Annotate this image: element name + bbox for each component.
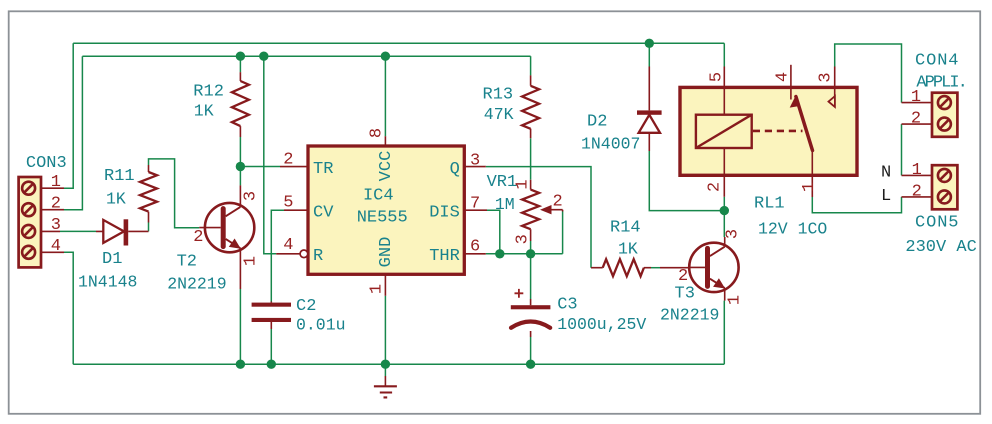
svg-text:47K: 47K xyxy=(484,105,514,124)
label CON4 xyxy=(915,52,959,71)
svg-text:R: R xyxy=(313,247,323,266)
junction node gnd C3 xyxy=(526,360,535,369)
pin number IC 5 xyxy=(283,194,293,213)
connector CON4 xyxy=(902,93,958,137)
value RL1 12V 1CO xyxy=(758,220,827,239)
relay pin 1 xyxy=(811,151,813,198)
label CON5 xyxy=(915,214,959,233)
label T3 xyxy=(675,285,695,304)
pin number CON3-3 xyxy=(51,216,61,235)
svg-text:2N2219: 2N2219 xyxy=(167,275,226,294)
svg-text:1: 1 xyxy=(911,88,921,107)
svg-text:8: 8 xyxy=(368,128,387,138)
value D2 1N4007 xyxy=(581,135,640,154)
net label N xyxy=(881,164,891,183)
svg-text:D1: D1 xyxy=(102,250,122,269)
svg-text:C2: C2 xyxy=(296,297,316,316)
wire CON3 pin1 to +12V rail xyxy=(64,43,73,188)
pin number VR1 1 xyxy=(514,179,533,189)
wire TR node to IC xyxy=(240,166,280,168)
svg-text:T3: T3 xyxy=(675,285,695,304)
svg-text:N: N xyxy=(881,164,891,183)
svg-text:2: 2 xyxy=(706,182,725,192)
wire relay pin1 to CON5 pin2 xyxy=(812,197,901,213)
svg-text:3: 3 xyxy=(242,191,261,201)
wire relay pin5 drop xyxy=(723,43,725,66)
connector CON3 xyxy=(19,177,64,267)
svg-text:NE555: NE555 xyxy=(357,209,408,228)
junction node rail B R12 xyxy=(236,52,245,61)
wire +12V rail A top xyxy=(73,42,724,44)
wire D1 cathode to R11 bottom xyxy=(148,223,150,232)
diode D2 xyxy=(637,67,662,152)
svg-text:DIS: DIS xyxy=(429,203,460,222)
wire rail B to IC VCC pin xyxy=(384,56,386,136)
svg-text:TR: TR xyxy=(313,160,333,179)
junction node DIS-THR xyxy=(495,249,504,258)
value T3 2N2219 xyxy=(660,306,719,325)
svg-text:R11: R11 xyxy=(104,167,135,186)
svg-text:4: 4 xyxy=(774,72,793,82)
value C2 0.01u xyxy=(296,316,346,335)
label D1 xyxy=(102,250,122,269)
svg-text:1N4007: 1N4007 xyxy=(581,135,640,154)
wire CON3 pin2 riser xyxy=(64,56,82,210)
svg-text:5: 5 xyxy=(283,194,293,213)
pin 1 GND stub xyxy=(384,274,386,296)
label D2 xyxy=(587,113,607,132)
svg-text:R14: R14 xyxy=(610,219,641,238)
junction node THR-VR1 xyxy=(526,249,535,258)
svg-text:2: 2 xyxy=(911,110,921,129)
pin number T2 emitter 1 xyxy=(242,256,261,266)
value R13 47K xyxy=(484,105,514,124)
svg-text:T2: T2 xyxy=(177,253,197,272)
pin number T3 emitter 1 xyxy=(726,295,745,305)
pin number IC 7 xyxy=(470,194,480,213)
svg-text:5: 5 xyxy=(708,72,727,82)
relay pin 4 xyxy=(790,65,792,100)
pin number relay 4 xyxy=(774,72,793,82)
pin number CON3-2 xyxy=(51,195,61,214)
svg-text:CON5: CON5 xyxy=(915,214,959,233)
svg-text:R13: R13 xyxy=(483,86,514,105)
svg-text:1: 1 xyxy=(800,182,819,192)
junction node relay pin2 xyxy=(720,206,729,215)
wire T3 emitter to ground rail xyxy=(723,301,725,365)
wire rail B to R pin xyxy=(264,56,276,254)
svg-text:1: 1 xyxy=(51,173,61,192)
svg-text:4: 4 xyxy=(283,236,293,255)
svg-text:2: 2 xyxy=(912,182,922,201)
resistor R14 xyxy=(591,259,689,276)
junction node rail B reset xyxy=(259,52,268,61)
value CON5 230V AC xyxy=(905,238,976,257)
pin 4 R stub with bubble xyxy=(276,250,308,258)
wire C3 bottom to ground rail xyxy=(530,337,532,364)
pin 5 CV stub xyxy=(284,209,308,211)
value T2 2N2219 xyxy=(167,275,226,294)
svg-text:IC4: IC4 xyxy=(363,187,394,206)
svg-text:RL1: RL1 xyxy=(754,195,785,214)
resistor R12 xyxy=(232,72,249,137)
wire CON3 pin4 down xyxy=(64,252,73,364)
label C3 xyxy=(557,296,577,315)
pin number IC 3 xyxy=(470,151,480,170)
pin number VR1 2 xyxy=(553,192,563,211)
capacitor C3 xyxy=(511,289,551,337)
pin name TR xyxy=(313,160,333,179)
wire R11 top to T2 base xyxy=(149,159,200,228)
net label L xyxy=(881,187,891,206)
wire rail B to R13 xyxy=(530,56,532,75)
wire DIS to THR net xyxy=(487,210,500,254)
svg-text:3: 3 xyxy=(514,234,533,244)
pin number CON5-1 xyxy=(912,161,922,180)
svg-text:230V AC: 230V AC xyxy=(905,238,976,257)
pin number IC 6 xyxy=(470,237,480,256)
svg-text:2: 2 xyxy=(553,192,563,211)
svg-text:3: 3 xyxy=(51,216,61,235)
value VR1 1M xyxy=(495,195,515,214)
label T2 xyxy=(177,253,197,272)
relay pin 2 xyxy=(723,148,725,197)
label VR1 xyxy=(487,173,518,192)
pin number relay 5 xyxy=(708,72,727,82)
svg-text:THR: THR xyxy=(429,247,460,266)
junction node rail B VCC xyxy=(381,52,390,61)
pin number CON5-2 xyxy=(912,182,922,201)
pin number IC 8 xyxy=(368,128,387,138)
pin number IC 1 xyxy=(368,284,387,294)
svg-text:7: 7 xyxy=(470,194,480,213)
wire VR1 wiper down xyxy=(562,212,564,254)
svg-text:L: L xyxy=(881,187,891,206)
relay pin 3 xyxy=(834,67,836,97)
svg-text:1: 1 xyxy=(514,179,533,189)
wire ground rail bottom xyxy=(73,363,724,365)
svg-text:1K: 1K xyxy=(618,240,638,259)
value R14 1K xyxy=(618,240,638,259)
svg-text:1: 1 xyxy=(242,256,261,266)
wire CV to C2 xyxy=(271,210,284,301)
pin number T2 collector 3 xyxy=(242,191,261,201)
pin number IC 4 xyxy=(283,236,293,255)
pin 2 TR stub xyxy=(280,166,308,168)
pin number relay 1 xyxy=(800,182,819,192)
wire rail B to R12 top xyxy=(239,56,241,72)
potentiometer VR1 xyxy=(522,180,563,254)
svg-text:R12: R12 xyxy=(193,83,224,102)
pin number CON4-1 xyxy=(911,88,921,107)
label R11 xyxy=(104,167,135,186)
pin number T2 base 2 xyxy=(193,228,203,247)
wire THR net to C3 top xyxy=(530,254,532,299)
pin 3 Q stub xyxy=(464,166,486,168)
wire R13 bottom to VR1 top xyxy=(530,138,532,179)
pin number relay 3 xyxy=(817,72,836,82)
pin number CON3-4 xyxy=(51,237,61,256)
pin name DIS xyxy=(429,203,460,222)
junction node TR xyxy=(236,162,245,171)
svg-text:1: 1 xyxy=(726,295,745,305)
svg-text:4: 4 xyxy=(51,237,61,256)
pin number IC 2 xyxy=(283,151,293,170)
value C3 1000u,25V xyxy=(557,315,646,334)
pin name R xyxy=(313,247,323,266)
wire CON4 pin2 to CON5 pin1 xyxy=(901,124,903,175)
pin name VCC xyxy=(377,151,396,182)
pin number T3 collector 3 xyxy=(724,229,743,239)
svg-text:2: 2 xyxy=(678,267,688,286)
svg-text:1M: 1M xyxy=(495,195,515,214)
value R12 1K xyxy=(194,102,214,121)
label R14 xyxy=(610,219,641,238)
pin number relay 2 xyxy=(706,182,725,192)
label C2 xyxy=(296,297,316,316)
svg-text:3: 3 xyxy=(724,229,743,239)
svg-text:CV: CV xyxy=(313,203,334,222)
svg-text:2N2219: 2N2219 xyxy=(660,306,719,325)
svg-text:APPLI.: APPLI. xyxy=(916,73,966,92)
svg-text:C3: C3 xyxy=(557,296,577,315)
wire relay pin3 to CON4 pin1 xyxy=(835,44,902,103)
wire T2 emitter to ground rail xyxy=(239,289,241,364)
svg-text:0.01u: 0.01u xyxy=(296,316,346,335)
svg-text:1000u,25V: 1000u,25V xyxy=(557,315,646,334)
transistor T2 xyxy=(199,185,254,289)
junction node gnd IC xyxy=(381,360,390,369)
capacitor C2 xyxy=(252,302,291,330)
junction node gnd T2 xyxy=(236,360,245,369)
svg-text:2: 2 xyxy=(51,195,61,214)
value R11 1K xyxy=(106,190,126,209)
svg-text:1: 1 xyxy=(912,161,922,180)
label R12 xyxy=(193,83,224,102)
pin 8 VCC stub xyxy=(384,136,386,146)
pin number T3 base 2 xyxy=(678,267,688,286)
wire R14 to T3 base xyxy=(651,267,660,269)
pin number VR1 3 xyxy=(514,234,533,244)
pin name CV xyxy=(313,203,334,222)
pin name Q xyxy=(450,160,460,179)
wire rail A to D2 xyxy=(648,43,650,66)
wire D2 bottom to relay pin2 node xyxy=(649,151,724,211)
value NE555 xyxy=(357,209,408,228)
svg-text:3: 3 xyxy=(817,72,836,82)
svg-text:CON3: CON3 xyxy=(26,154,67,173)
wire relay pin2 to node xyxy=(723,197,725,211)
svg-text:1K: 1K xyxy=(106,190,126,209)
wire R12 bottom to TR node xyxy=(239,137,241,167)
svg-text:1K: 1K xyxy=(194,102,214,121)
pin name GND xyxy=(377,237,396,268)
svg-text:3: 3 xyxy=(470,151,480,170)
relay pin 5 xyxy=(723,67,725,115)
svg-text:6: 6 xyxy=(470,237,480,256)
pin 6 THR stub xyxy=(464,253,486,255)
wire node to T3 collector xyxy=(723,211,725,237)
pin name THR xyxy=(429,247,460,266)
pin number CON4-2 xyxy=(911,110,921,129)
pin 7 DIS stub xyxy=(464,209,487,211)
svg-text:2: 2 xyxy=(283,151,293,170)
junction node rail A D2 xyxy=(645,39,654,48)
svg-text:1: 1 xyxy=(368,284,387,294)
wire CON3 pin3 to D1 xyxy=(60,230,96,232)
junction node gnd C2 xyxy=(267,360,276,369)
op-amp IC4 NE555 body xyxy=(308,146,464,274)
wire IC GND pin to ground rail xyxy=(384,296,386,364)
svg-text:1N4148: 1N4148 xyxy=(78,273,137,292)
transistor T3 xyxy=(689,237,739,301)
wire Q output to R14 xyxy=(486,167,591,268)
wire VCC rail B xyxy=(82,55,530,57)
wire ground stub xyxy=(384,364,386,376)
svg-text:D2: D2 xyxy=(587,113,607,132)
relay RL1 body xyxy=(680,87,857,175)
wire THR net xyxy=(486,253,563,255)
svg-text:CON4: CON4 xyxy=(915,52,959,71)
ground xyxy=(374,376,397,397)
connector CON5 xyxy=(902,165,958,209)
wire TR node to T2 collector xyxy=(239,167,241,186)
resistor R13 xyxy=(522,75,539,138)
label R13 xyxy=(483,86,514,105)
svg-text:GND: GND xyxy=(377,237,396,268)
svg-text:Q: Q xyxy=(450,160,460,179)
label IC4 xyxy=(363,187,394,206)
svg-text:VCC: VCC xyxy=(377,151,396,182)
label CON3 xyxy=(26,154,67,173)
svg-text:2: 2 xyxy=(193,228,203,247)
label APPLI. xyxy=(916,73,966,92)
pin number CON3-1 xyxy=(51,173,61,192)
svg-text:12V 1CO: 12V 1CO xyxy=(758,220,827,239)
wire C2 bottom to ground rail xyxy=(270,329,272,364)
label RL1 xyxy=(754,195,785,214)
diode D1 xyxy=(96,219,149,245)
resistor R11 xyxy=(140,165,157,223)
value D1 1N4148 xyxy=(78,273,137,292)
